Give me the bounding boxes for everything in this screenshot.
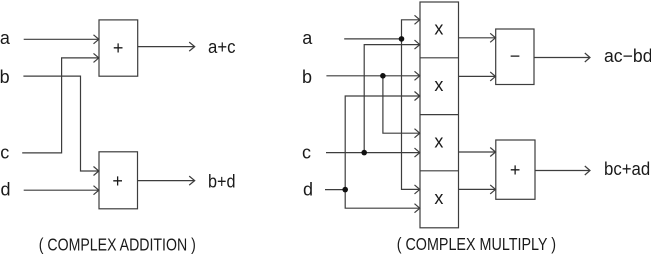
svg-text:x: x <box>434 131 443 151</box>
svg-text:c: c <box>302 142 311 162</box>
divider M1/M2 <box>420 57 459 59</box>
wire U4 output bc+ad <box>535 166 590 175</box>
wire M4 output to U4 in2 <box>459 185 496 194</box>
divider M2/M3 <box>420 114 459 116</box>
wire a to node A (ends at junction) <box>344 38 401 40</box>
wire b to U2 (down elbow) <box>23 76 98 175</box>
node C junction dot on c <box>361 150 367 156</box>
wire a to U1 <box>24 35 99 44</box>
svg-text:c: c <box>0 143 9 163</box>
wire U1 output a+c <box>138 42 195 51</box>
wire d to node D (ends at junction) <box>325 189 345 191</box>
wire c to U1 (up elbow) <box>22 53 99 152</box>
svg-text:ac−bd: ac−bd <box>604 46 651 66</box>
svg-text:a: a <box>302 28 313 48</box>
wire M2 output to U3 in2 <box>459 72 496 81</box>
wire c branch up to M1 in2 <box>364 40 420 153</box>
svg-text:bc+ad: bc+ad <box>604 159 650 179</box>
node B junction dot on b <box>380 73 386 79</box>
wire d branch up to M2 in2 <box>345 92 420 190</box>
wire b to M2 in1 <box>326 71 419 80</box>
node D junction dot on d <box>342 187 348 193</box>
svg-text:+: + <box>112 171 123 191</box>
wire a branch up to M1 in1 <box>402 15 420 39</box>
multiplier column M1-M4 outer box <box>420 2 459 228</box>
svg-text:x: x <box>434 188 443 208</box>
node A junction dot on a <box>399 36 405 42</box>
svg-text:a: a <box>0 28 11 48</box>
svg-text:d: d <box>303 179 313 199</box>
wire U2 output b+d <box>138 176 195 185</box>
divider M3/M4 <box>420 170 459 172</box>
svg-text:( COMPLEX MULTIPLY ): ( COMPLEX MULTIPLY ) <box>397 234 556 254</box>
wire b branch down to M3 in1 <box>383 76 420 138</box>
svg-text:b+d: b+d <box>208 172 236 192</box>
svg-text:+: + <box>510 160 521 180</box>
svg-text:b: b <box>302 67 312 87</box>
svg-text:+: + <box>113 38 124 58</box>
adder U2 box <box>99 152 138 209</box>
wire M1 output to U3 in1 <box>459 33 496 42</box>
svg-text:( COMPLEX ADDITION ): ( COMPLEX ADDITION ) <box>39 235 196 255</box>
svg-text:a+c: a+c <box>208 37 236 57</box>
subtractor U3 box <box>496 29 534 85</box>
wire a branch down to M4 in1 <box>402 39 420 194</box>
wire M3 output to U4 in1 <box>459 148 496 157</box>
svg-text:x: x <box>434 19 443 39</box>
wire U3 output ac-bd <box>534 53 590 62</box>
svg-text:−: − <box>510 46 521 66</box>
wire d to U2 <box>24 186 99 195</box>
adder U4 box <box>496 140 535 199</box>
svg-text:x: x <box>434 75 443 95</box>
wire d branch down to M4 in2 <box>345 190 420 213</box>
svg-text:d: d <box>1 179 11 199</box>
wire c to M3 in2 <box>326 148 420 157</box>
svg-text:b: b <box>0 67 10 87</box>
adder U1 box <box>99 20 138 76</box>
